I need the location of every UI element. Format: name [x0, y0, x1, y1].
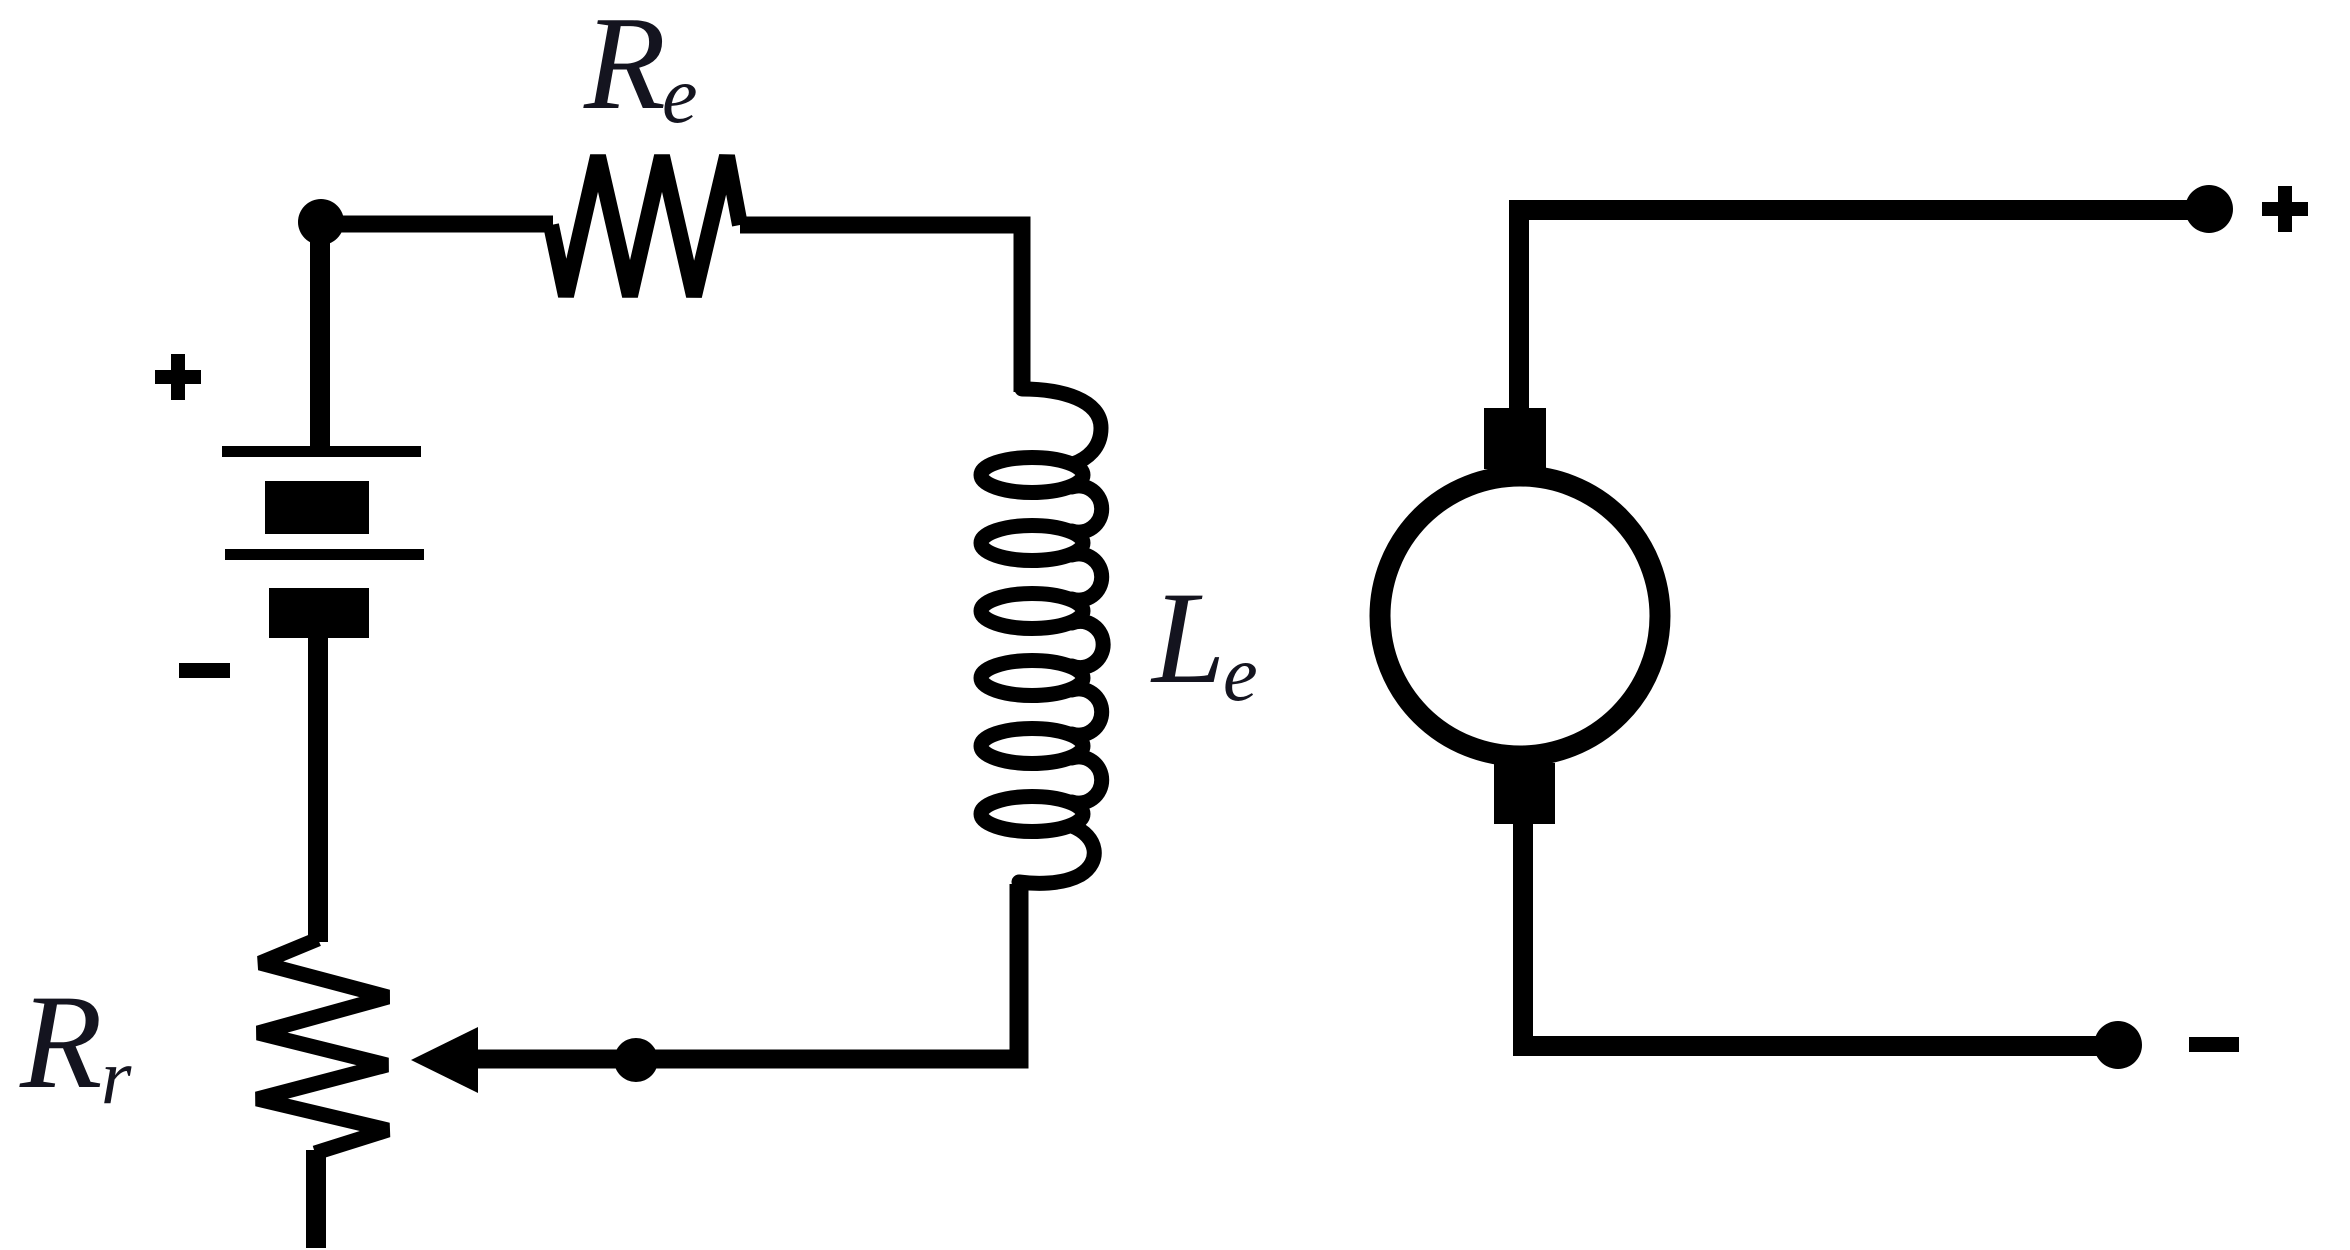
motor M : bottom brush square	[1494, 763, 1555, 824]
rheostat Rr : vertical zigzag	[257, 939, 388, 1153]
label Le	[1150, 564, 1258, 717]
svg-text:R: R	[19, 968, 102, 1117]
svg-text:r: r	[101, 1033, 132, 1120]
node A : junction dot at battery positive	[298, 199, 344, 245]
battery cell 1 long plate	[222, 446, 421, 457]
battery cell 1 short thick plate	[265, 481, 369, 534]
battery + polarity mark	[155, 354, 201, 400]
node B : junction dot on wiper wire	[614, 1038, 658, 1082]
svg-text:R: R	[583, 0, 666, 137]
svg-text:e: e	[662, 52, 698, 140]
label - terminal	[2189, 1037, 2239, 1052]
battery - polarity mark	[179, 663, 230, 678]
wire : node A to resistor Re left lead	[321, 216, 553, 233]
label + terminal	[2262, 186, 2308, 232]
rheostat wiper arrow	[411, 1027, 478, 1093]
motor M : body circle	[1380, 476, 1660, 756]
svg-text:L: L	[1150, 564, 1225, 711]
inductor Le : spiral coil	[1019, 389, 1103, 883]
wire : motor top lead up and right to + terminal	[1519, 210, 2209, 408]
label Re	[583, 0, 698, 140]
svg-text:e: e	[1223, 630, 1258, 717]
terminal dot +	[2185, 185, 2233, 233]
resistor Re : zigzag	[551, 156, 740, 296]
wire : inductor bottom down and left along bottom of left loop	[474, 884, 1019, 1059]
wire : resistor Re to top-right corner of left loop	[740, 225, 1022, 392]
wire : motor bottom lead down and right to - terminal	[1523, 820, 2118, 1046]
motor M : top brush square	[1484, 408, 1546, 469]
wire : rheostat Rr bottom lead	[306, 1150, 326, 1248]
label Rr	[19, 968, 132, 1120]
wire : node A down to battery top plate	[310, 222, 330, 450]
battery cell 2 long plate	[225, 549, 424, 560]
battery cell 2 short thick plate	[269, 588, 369, 638]
wire : battery negative down to rheostat Rr	[308, 632, 328, 942]
terminal dot -	[2094, 1021, 2142, 1069]
